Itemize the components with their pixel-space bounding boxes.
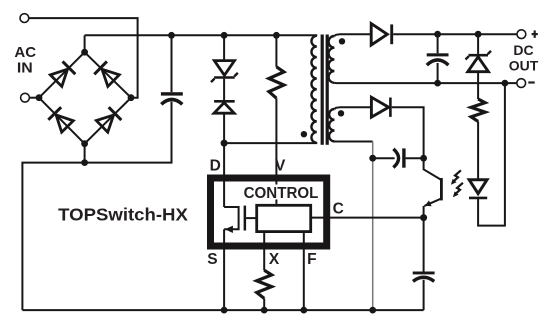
transformer core [321,35,324,145]
svg-text:AC: AC [14,45,36,61]
node clamp at bus [221,32,228,39]
wire bridge side left-bottom [39,98,85,144]
transformer secondary winding [329,36,335,83]
capacitor output [427,53,449,56]
resistor feedback [471,99,485,121]
wire F pin [303,232,305,311]
resistor line sense [275,35,277,67]
wire HV bus [85,34,318,36]
MOSFET gate bar [244,206,247,231]
diode clamp blocking [214,100,235,103]
wire bridge side top-right [85,52,131,97]
wire secondary top to rectifier [334,34,371,36]
node input cap at bus [168,32,175,39]
diode bridge top-right [94,61,120,87]
label minus sign [528,81,534,83]
polarity dot bias [338,110,344,116]
capacitor control bypass [423,218,425,272]
wire output plus rail [393,33,517,35]
label pin X [269,251,280,268]
control block [257,205,311,231]
capacitor bias right lead [406,157,424,159]
node C pin bypass [420,214,427,221]
zener clamp TVS [214,61,234,76]
svg-text:V: V [275,157,286,174]
wire S pin [223,229,225,310]
wire bridge top to HV bus [84,35,86,52]
node drain [221,140,228,147]
transistor optocoupler collector [424,158,441,179]
capacitor output top lead [437,34,439,53]
capacitor bias left lead [373,157,395,159]
wire zener to resistor [477,72,479,99]
capacitor bias [393,149,398,168]
label AC IN [14,45,36,76]
label pin C [333,200,344,217]
label pin D [210,157,221,174]
label pin S [207,251,217,268]
node lower return junction [81,159,88,166]
terminal AC input top [20,14,29,23]
MOSFET internal drain jog [224,207,239,229]
node output cap top [434,31,441,38]
wire gate to control block [246,217,257,219]
terminal DC plus [517,30,526,39]
node X ground [261,307,268,314]
wire D pin [223,143,225,207]
svg-text:CONTROL: CONTROL [244,185,319,202]
wire bias rectifier to bias node [392,107,424,158]
svg-text:OUT: OUT [509,58,539,74]
wire bridge side bottom-right [85,98,131,144]
capacitor output bottom lead [437,63,439,83]
node output cap bottom [434,80,441,87]
transformer bias winding [329,109,334,141]
diode bridge top-left [50,61,76,87]
wire bias return [335,140,373,142]
wire secondary bottom return [334,82,516,84]
diode bridge bottom-left [48,107,74,133]
polarity dot secondary [339,38,345,44]
polarity dot primary [301,131,307,137]
wire bridge bottom drop [84,144,86,163]
wire X pin [263,232,265,271]
node bridge bottom [81,140,88,147]
label pin V [275,157,286,174]
svg-text:S: S [207,251,217,268]
wire drain node to primary [224,142,317,144]
capacitor input filter top lead [171,35,173,92]
capacitor input filter [161,92,183,95]
node feedback return [502,80,509,87]
label TOPSwitch-HX [58,205,188,225]
transistor optocoupler base bar [440,178,443,200]
wire AC bottom to bridge left node [30,97,39,99]
svg-text:IN: IN [17,60,33,76]
label CONTROL [242,185,320,203]
node bias cap right [420,155,427,162]
wire lower return horizontal [22,102,171,310]
wire V pin [275,98,277,204]
wire resistor to LED [477,121,479,179]
wire clamp lower to drain node [223,113,225,143]
diode output rectifier [371,24,387,45]
node bridge left [36,94,43,101]
svg-text:TOPSwitch-HX: TOPSwitch-HX [58,205,188,225]
label pin F [307,251,316,268]
light arrows optocoupler [453,170,461,181]
wire bias return vertical [372,142,374,311]
wire clamp middle [223,79,225,101]
diode bias rectifier [371,97,388,117]
resistor X pin [257,270,272,298]
wire bias top to rectifier [335,107,372,109]
node F ground [300,307,307,314]
label DC OUT [509,42,539,74]
svg-text:DC: DC [513,42,533,58]
label plus sign [532,33,538,35]
wire AC top to right [29,18,137,98]
terminal DC minus [517,79,526,88]
node bridge right [128,94,135,101]
node bias cap left [369,155,376,162]
transformer primary winding [311,36,316,143]
node S ground [221,307,228,314]
node feedback zener top [475,31,482,38]
wire ground bus [22,309,423,311]
svg-text:F: F [307,251,316,268]
node bridge top [81,49,88,56]
terminal AC input bottom [21,93,30,102]
transistor optocoupler emitter [424,199,440,206]
MOSFET source arrow [225,226,233,233]
wire clamp branch upper [223,35,225,60]
svg-text:D: D [210,157,221,174]
IC TOPSwitch-HX outline [211,178,327,246]
svg-text:C: C [333,200,344,217]
LED optocoupler [469,180,487,194]
wire bridge side left-top [39,52,85,97]
node bias return ground [369,307,376,314]
svg-text:X: X [269,251,280,268]
diode bridge bottom-right [96,107,122,133]
wire CONTROL C pin [312,217,424,219]
wire LED cathode loop [478,83,505,226]
zener feedback reference [477,34,479,54]
